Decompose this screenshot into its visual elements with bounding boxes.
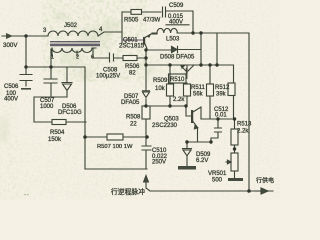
- svg-text:250V: 250V: [152, 160, 166, 166]
- svg-text:150k: 150k: [48, 137, 62, 143]
- svg-text:C506: C506: [4, 84, 19, 90]
- svg-text:2SC2230: 2SC2230: [152, 123, 178, 129]
- svg-text:DFA05: DFA05: [121, 100, 140, 106]
- svg-text:2.2k: 2.2k: [173, 97, 185, 103]
- svg-text:R512: R512: [215, 85, 230, 91]
- svg-text:1000: 1000: [40, 104, 54, 110]
- svg-text:J502: J502: [64, 23, 78, 29]
- svg-text:2.2k: 2.2k: [237, 129, 249, 135]
- svg-text:300V: 300V: [3, 42, 18, 49]
- svg-text:47/3W: 47/3W: [143, 18, 161, 24]
- svg-text:500: 500: [212, 178, 223, 184]
- svg-text:6: 6: [91, 55, 94, 61]
- svg-text:10k: 10k: [155, 86, 166, 92]
- svg-text:R507 100 1W: R507 100 1W: [97, 144, 133, 150]
- svg-text:R511: R511: [191, 85, 206, 91]
- svg-text:82: 82: [129, 71, 136, 77]
- svg-text:R513: R513: [237, 122, 252, 128]
- svg-text:R506: R506: [125, 64, 140, 70]
- svg-text:56k: 56k: [193, 92, 204, 98]
- svg-text:100µ25V: 100µ25V: [96, 74, 120, 80]
- svg-text:22: 22: [130, 122, 137, 128]
- svg-text:400V: 400V: [4, 97, 18, 103]
- svg-text:DFC10G: DFC10G: [58, 110, 82, 116]
- svg-text:R505: R505: [124, 18, 139, 24]
- svg-text:D508 DFA05: D508 DFA05: [160, 55, 195, 61]
- svg-text:0.01: 0.01: [215, 113, 227, 119]
- svg-text:Q503: Q503: [164, 117, 179, 123]
- svg-text:2: 2: [76, 55, 79, 61]
- svg-text:行逆程脉冲: 行逆程脉冲: [111, 187, 145, 196]
- svg-text:6.2V: 6.2V: [196, 158, 208, 164]
- svg-text:R504: R504: [50, 130, 65, 136]
- svg-text:R510: R510: [170, 77, 185, 83]
- svg-text:C509: C509: [169, 3, 184, 9]
- svg-text:400V: 400V: [169, 20, 183, 26]
- svg-text:VR501: VR501: [208, 171, 227, 177]
- svg-text:R509: R509: [153, 78, 168, 84]
- svg-text:行供电: 行供电: [256, 177, 274, 185]
- svg-text:39k: 39k: [216, 92, 227, 98]
- svg-text:R508: R508: [126, 115, 141, 121]
- svg-text:1: 1: [51, 55, 54, 61]
- svg-text:2SC1815: 2SC1815: [119, 44, 145, 50]
- svg-text:L503: L503: [166, 37, 180, 43]
